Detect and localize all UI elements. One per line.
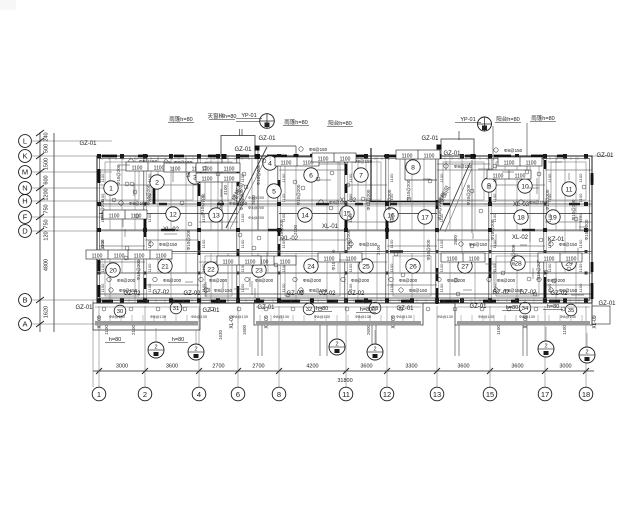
svg-text:8: 8 xyxy=(411,164,415,171)
scan corner artifact xyxy=(0,0,16,10)
svg-text:1100: 1100 xyxy=(100,263,105,272)
canopy YP-01 right xyxy=(437,117,528,172)
svg-text:Φ8@200: Φ8@200 xyxy=(303,278,322,283)
svg-text:1630: 1630 xyxy=(218,329,223,340)
svg-text:B: B xyxy=(22,296,27,305)
edge hatch ticks xyxy=(102,157,588,302)
svg-text:GZ-01: GZ-01 xyxy=(421,136,439,142)
svg-text:Φ4@200: Φ4@200 xyxy=(248,215,265,220)
columns xyxy=(97,154,588,303)
svg-text:1100: 1100 xyxy=(493,174,504,180)
grid axis 6 xyxy=(231,387,245,401)
svg-text:H: H xyxy=(22,197,27,206)
svg-text:1100: 1100 xyxy=(547,193,552,202)
svg-text:1100: 1100 xyxy=(147,213,152,222)
svg-text:Φ8@130: Φ8@130 xyxy=(519,314,536,319)
member labels xyxy=(75,136,616,314)
svg-text:2: 2 xyxy=(143,390,147,399)
svg-text:1100: 1100 xyxy=(504,161,515,167)
rotated member labels xyxy=(97,315,598,329)
svg-text:2600: 2600 xyxy=(251,194,256,205)
svg-text:Φ8@130: Φ8@130 xyxy=(109,314,126,319)
svg-text:1100: 1100 xyxy=(348,193,353,202)
svg-text:Φ8@150: Φ8@150 xyxy=(214,288,233,293)
grid axis 17 xyxy=(538,387,552,401)
svg-text:Φ10@200: Φ10@200 xyxy=(426,239,431,260)
grid axis M xyxy=(19,166,112,179)
svg-text:Φ10@200: Φ10@200 xyxy=(136,259,141,280)
rebar annotations xyxy=(107,147,578,293)
slab mark 33 xyxy=(369,302,381,314)
porch descenders xyxy=(258,325,527,356)
svg-text:GZ-02: GZ-02 xyxy=(183,291,201,297)
svg-text:1100: 1100 xyxy=(201,213,206,222)
svg-text:Φ8@130: Φ8@130 xyxy=(150,314,167,319)
grid axis 1 xyxy=(92,387,106,401)
svg-text:500: 500 xyxy=(44,144,50,153)
grid axis L xyxy=(19,135,112,148)
svg-text:13: 13 xyxy=(212,212,220,219)
svg-text:1100: 1100 xyxy=(544,257,555,263)
svg-text:Φ8@200: Φ8@200 xyxy=(351,278,370,283)
svg-text:3100: 3100 xyxy=(223,184,228,195)
svg-text:XL-09: XL-09 xyxy=(592,315,598,329)
svg-text:Φ8@130: Φ8@130 xyxy=(273,314,290,319)
slab mark 6 xyxy=(304,168,318,182)
svg-text:XL-02: XL-02 xyxy=(163,227,180,233)
svg-text:3600: 3600 xyxy=(457,364,469,370)
stairwell right xyxy=(435,160,472,233)
svg-text:1100: 1100 xyxy=(281,161,292,167)
canopy YP-01 left xyxy=(221,114,299,159)
svg-text:M: M xyxy=(22,168,28,177)
grid axis A xyxy=(19,318,112,331)
svg-text:25: 25 xyxy=(362,263,370,270)
svg-text:1100: 1100 xyxy=(92,254,103,260)
svg-text:XL-01: XL-01 xyxy=(322,224,339,230)
svg-text:1100: 1100 xyxy=(547,239,552,248)
svg-text:K: K xyxy=(22,152,27,161)
slab mark 29 xyxy=(562,256,576,270)
svg-text:D: D xyxy=(22,227,28,236)
svg-text:Φ8@130: Φ8@130 xyxy=(560,314,577,319)
svg-text:120: 120 xyxy=(44,231,50,240)
svg-text:1100: 1100 xyxy=(492,193,497,202)
svg-text:1100: 1100 xyxy=(526,161,537,167)
svg-text:Φ8@150: Φ8@150 xyxy=(409,288,428,293)
partition wall segments xyxy=(99,148,592,285)
slab mark 18 xyxy=(514,210,528,224)
svg-text:1100: 1100 xyxy=(348,283,353,292)
svg-text:Φ8@150: Φ8@150 xyxy=(504,148,523,153)
svg-text:2600: 2600 xyxy=(453,234,458,245)
svg-text:1100: 1100 xyxy=(100,193,105,202)
bottom dimension chain xyxy=(93,300,594,387)
svg-text:31800: 31800 xyxy=(337,378,352,384)
svg-text:4: 4 xyxy=(197,390,201,399)
svg-text:1100: 1100 xyxy=(280,260,291,266)
svg-text:GZ-01: GZ-01 xyxy=(75,305,93,311)
svg-text:1100: 1100 xyxy=(224,167,235,173)
svg-text:h=80: h=80 xyxy=(316,306,328,312)
svg-text:1100: 1100 xyxy=(578,193,583,202)
svg-text:1100: 1100 xyxy=(402,154,413,160)
stairwell left xyxy=(222,146,268,230)
svg-text:Φ8@150: Φ8@150 xyxy=(504,288,523,293)
svg-text:26: 26 xyxy=(409,263,417,270)
grid axis 18 xyxy=(579,387,593,401)
svg-text:750: 750 xyxy=(44,219,50,228)
svg-text:1100: 1100 xyxy=(439,193,444,202)
svg-text:Φ8@150: Φ8@150 xyxy=(329,200,348,205)
svg-text:Φ8@150: Φ8@150 xyxy=(359,242,378,247)
svg-text:4: 4 xyxy=(268,160,272,167)
svg-text:11: 11 xyxy=(565,186,572,193)
grid axis B xyxy=(19,294,592,307)
svg-text:XL-02: XL-02 xyxy=(512,235,529,241)
svg-text:L: L xyxy=(23,137,27,146)
svg-text:Φ10@200: Φ10@200 xyxy=(116,164,121,185)
svg-text:17: 17 xyxy=(421,214,429,221)
svg-text:YP-01: YP-01 xyxy=(460,117,475,123)
svg-text:Φ8@150: Φ8@150 xyxy=(159,242,178,247)
svg-text:1: 1 xyxy=(97,390,101,399)
svg-text:3100: 3100 xyxy=(376,244,381,255)
svg-text:1100: 1100 xyxy=(109,214,120,220)
grid axis N xyxy=(19,182,112,195)
svg-text:1100: 1100 xyxy=(147,263,152,272)
svg-text:3600: 3600 xyxy=(360,364,372,370)
svg-text:1100: 1100 xyxy=(170,167,181,173)
svg-text:Φ8@150: Φ8@150 xyxy=(454,164,473,169)
svg-text:1100: 1100 xyxy=(240,173,245,182)
svg-text:1100: 1100 xyxy=(439,263,444,272)
wall junctions xyxy=(98,203,588,275)
svg-text:2: 2 xyxy=(194,347,197,353)
slab mark 35 xyxy=(565,304,577,316)
svg-text:13: 13 xyxy=(433,390,441,399)
slab mark 12 xyxy=(166,207,180,221)
svg-text:2: 2 xyxy=(544,344,547,350)
svg-text:1500: 1500 xyxy=(44,158,50,170)
svg-text:3000: 3000 xyxy=(116,364,128,370)
svg-text:1100: 1100 xyxy=(281,173,286,182)
svg-text:10: 10 xyxy=(521,183,529,190)
svg-text:XL-03: XL-03 xyxy=(513,202,530,208)
svg-text:1100: 1100 xyxy=(348,239,353,248)
svg-text:1100: 1100 xyxy=(578,263,583,272)
svg-text:Φ8@130: Φ8@130 xyxy=(191,314,208,319)
svg-text:2700: 2700 xyxy=(252,364,264,370)
slab mark 3 xyxy=(188,170,202,184)
svg-text:1100: 1100 xyxy=(245,260,256,266)
svg-text:1100: 1100 xyxy=(515,174,526,180)
svg-text:Φ8@150: Φ8@150 xyxy=(559,242,578,247)
svg-text:12: 12 xyxy=(383,390,391,399)
svg-text:1100: 1100 xyxy=(147,239,152,248)
svg-text:4800: 4800 xyxy=(44,259,50,271)
svg-text:h=80: h=80 xyxy=(109,337,121,343)
svg-text:Φ8@150: Φ8@150 xyxy=(119,288,138,293)
svg-text:GZ-01: GZ-01 xyxy=(258,136,276,142)
svg-text:1100: 1100 xyxy=(389,193,394,202)
svg-text:Φ8@200: Φ8@200 xyxy=(209,278,228,283)
svg-text:1100: 1100 xyxy=(348,213,353,222)
svg-text:Φ10@200: Φ10@200 xyxy=(186,229,191,250)
svg-text:21: 21 xyxy=(161,263,169,270)
svg-text:Φ8@130: Φ8@130 xyxy=(437,314,454,319)
svg-text:7: 7 xyxy=(359,172,363,179)
svg-text:23: 23 xyxy=(255,267,263,274)
svg-text:Φ10@200: Φ10@200 xyxy=(584,219,589,240)
svg-text:1100: 1100 xyxy=(281,213,286,222)
slab mark 34 xyxy=(519,302,531,314)
svg-text:Φ8@150: Φ8@150 xyxy=(354,159,373,164)
slab mark 23 xyxy=(252,263,266,277)
slab mark 10 xyxy=(518,179,532,193)
svg-text:1100: 1100 xyxy=(439,283,444,292)
svg-text:1100: 1100 xyxy=(578,173,583,182)
svg-text:1100: 1100 xyxy=(389,173,394,182)
svg-text:2: 2 xyxy=(154,345,157,351)
grid axis F xyxy=(19,211,112,224)
svg-text:Φ10@200: Φ10@200 xyxy=(296,184,301,205)
svg-text:Φ8@130: Φ8@130 xyxy=(355,314,372,319)
svg-text:1100: 1100 xyxy=(156,254,167,260)
svg-text:1100: 1100 xyxy=(547,173,552,182)
svg-text:Φ8@200: Φ8@200 xyxy=(117,278,136,283)
svg-text:h=80: h=80 xyxy=(360,307,372,313)
svg-text:雨篷h=80: 雨篷h=80 xyxy=(169,115,192,123)
svg-text:1100: 1100 xyxy=(240,283,245,292)
left dimension values xyxy=(44,132,50,318)
svg-text:6: 6 xyxy=(236,390,240,399)
svg-text:Φ8@130: Φ8@130 xyxy=(478,314,495,319)
svg-text:1100: 1100 xyxy=(154,166,165,172)
svg-text:2700: 2700 xyxy=(212,364,224,370)
building outer wall xyxy=(97,156,592,303)
svg-text:11: 11 xyxy=(342,390,350,399)
svg-text:2: 2 xyxy=(585,350,588,356)
wall fill bars xyxy=(98,155,594,304)
svg-text:Φ8@150: Φ8@150 xyxy=(309,288,328,293)
svg-text:Φ10@200: Φ10@200 xyxy=(366,189,371,210)
svg-text:1100: 1100 xyxy=(224,177,235,183)
canopy labels xyxy=(168,112,556,127)
svg-text:1100: 1100 xyxy=(147,173,152,182)
secondary vertical beams xyxy=(110,156,576,303)
svg-text:6: 6 xyxy=(309,172,313,179)
slab mark 24 xyxy=(304,259,318,273)
svg-text:1100: 1100 xyxy=(348,263,353,272)
svg-text:27: 27 xyxy=(461,263,469,270)
svg-text:1100: 1100 xyxy=(424,154,435,160)
svg-text:GZ-01: GZ-01 xyxy=(257,305,275,311)
grid axis H xyxy=(19,195,592,208)
section markers xyxy=(148,325,595,363)
slab mark 32 xyxy=(303,303,315,315)
grid axis 8 xyxy=(272,387,286,401)
svg-text:GZ-01: GZ-01 xyxy=(234,147,252,153)
svg-text:15: 15 xyxy=(486,390,494,399)
slab mark 9 xyxy=(482,178,496,192)
svg-text:1100: 1100 xyxy=(348,173,353,182)
slab mark 21 xyxy=(158,259,172,273)
svg-text:Φ10@200: Φ10@200 xyxy=(536,259,541,280)
svg-text:1100: 1100 xyxy=(132,166,143,172)
detail end markers xyxy=(112,159,587,298)
svg-text:1100: 1100 xyxy=(202,177,213,183)
svg-text:18: 18 xyxy=(517,214,525,221)
slab mark 4 xyxy=(263,156,277,170)
svg-text:1100: 1100 xyxy=(281,239,286,248)
svg-text:Φ10@200: Φ10@200 xyxy=(511,244,516,265)
svg-text:Φ8@150: Φ8@150 xyxy=(309,147,328,152)
svg-text:17: 17 xyxy=(541,390,549,399)
svg-text:Φ8@130: Φ8@130 xyxy=(232,314,249,319)
wall dimension chains xyxy=(100,173,583,292)
interior horizontal walls xyxy=(97,204,592,298)
slab mark 5 xyxy=(267,184,281,198)
svg-text:1100: 1100 xyxy=(469,257,480,263)
room outlines xyxy=(105,162,586,296)
slab mark 15 xyxy=(340,206,354,220)
svg-text:1100: 1100 xyxy=(566,257,577,263)
svg-text:1100: 1100 xyxy=(147,283,152,292)
svg-text:1100: 1100 xyxy=(492,213,497,222)
grid axis D xyxy=(19,225,592,238)
svg-text:1100: 1100 xyxy=(547,283,552,292)
svg-text:1100: 1100 xyxy=(134,254,145,260)
svg-text:1100: 1100 xyxy=(547,213,552,222)
slab mark 28 xyxy=(511,256,525,270)
svg-text:3600: 3600 xyxy=(511,364,523,370)
slab mark 11 xyxy=(562,182,576,196)
svg-text:Φ8@200: Φ8@200 xyxy=(163,278,182,283)
slab mark 27 xyxy=(458,259,472,273)
svg-text:Φ8@200: Φ8@200 xyxy=(447,278,466,283)
svg-text:1100: 1100 xyxy=(318,157,329,163)
svg-text:1100: 1100 xyxy=(201,283,206,292)
grid axis K xyxy=(19,150,612,163)
svg-text:Φ8@200: Φ8@200 xyxy=(497,278,516,283)
svg-text:1100: 1100 xyxy=(578,239,583,248)
svg-text:2: 2 xyxy=(373,347,376,353)
svg-text:1100: 1100 xyxy=(389,213,394,222)
svg-text:1100: 1100 xyxy=(281,283,286,292)
svg-text:1100: 1100 xyxy=(240,193,245,202)
svg-text:18: 18 xyxy=(582,390,590,399)
slab mark 20 xyxy=(106,263,120,277)
svg-text:5: 5 xyxy=(272,188,276,195)
svg-text:1100: 1100 xyxy=(447,257,458,263)
balcony level labels xyxy=(105,304,563,343)
svg-text:750: 750 xyxy=(44,204,50,213)
svg-text:2: 2 xyxy=(155,179,159,186)
svg-text:1100: 1100 xyxy=(324,257,335,263)
svg-text:h=80: h=80 xyxy=(506,305,518,311)
slab mark 26 xyxy=(406,259,420,273)
svg-text:Φ8@130: Φ8@130 xyxy=(396,314,413,319)
svg-text:3100: 3100 xyxy=(293,224,298,235)
svg-text:Φ8@200: Φ8@200 xyxy=(255,278,274,283)
grid axis 13 xyxy=(430,387,444,401)
slab mark 13 xyxy=(209,208,223,222)
grid axis 11 xyxy=(339,387,353,401)
svg-text:1100: 1100 xyxy=(100,239,105,248)
slab mark 30 xyxy=(114,305,126,317)
slab mark 2 xyxy=(150,175,164,189)
svg-text:阳台h=80: 阳台h=80 xyxy=(496,115,519,123)
svg-text:12: 12 xyxy=(169,211,177,218)
svg-text:1100: 1100 xyxy=(114,254,125,260)
slab mark 7 xyxy=(354,168,368,182)
svg-text:h=80: h=80 xyxy=(547,304,559,310)
balconies xyxy=(93,303,610,330)
slab mark 14 xyxy=(298,208,312,222)
svg-text:天窗梯h=80: 天窗梯h=80 xyxy=(208,112,237,120)
svg-text:1: 1 xyxy=(109,185,113,192)
svg-text:GZ-02: GZ-02 xyxy=(519,290,537,296)
svg-text:1100: 1100 xyxy=(578,213,583,222)
left dimension chain xyxy=(36,130,54,332)
svg-text:1100: 1100 xyxy=(100,283,105,292)
svg-text:Φ8@150: Φ8@150 xyxy=(129,201,148,206)
svg-text:1100: 1100 xyxy=(496,325,501,335)
svg-text:A: A xyxy=(22,320,27,329)
svg-text:1100: 1100 xyxy=(240,239,245,248)
svg-text:1100: 1100 xyxy=(439,213,444,222)
svg-text:600: 600 xyxy=(44,175,50,184)
svg-text:4200: 4200 xyxy=(306,364,318,370)
svg-text:22: 22 xyxy=(207,266,215,273)
svg-text:1100: 1100 xyxy=(439,239,444,248)
slab mark 19 xyxy=(546,210,560,224)
svg-text:1100: 1100 xyxy=(201,239,206,248)
svg-text:GZ-01: GZ-01 xyxy=(443,151,461,157)
svg-text:N: N xyxy=(22,184,27,193)
svg-text:1100: 1100 xyxy=(100,173,105,182)
svg-text:1100: 1100 xyxy=(223,260,234,266)
svg-text:8: 8 xyxy=(277,390,281,399)
svg-text:1200: 1200 xyxy=(44,188,50,200)
svg-text:1100: 1100 xyxy=(346,257,357,263)
svg-text:雨篷h=80: 雨篷h=80 xyxy=(531,114,554,122)
interior vertical walls xyxy=(144,156,546,303)
svg-text:20: 20 xyxy=(109,267,117,274)
svg-text:1100: 1100 xyxy=(201,263,206,272)
svg-text:1100: 1100 xyxy=(578,283,583,292)
svg-text:1100: 1100 xyxy=(389,239,394,248)
svg-text:1620: 1620 xyxy=(44,306,50,318)
svg-text:14: 14 xyxy=(301,212,309,219)
svg-text:1100: 1100 xyxy=(389,263,394,272)
slab mark 22 xyxy=(204,262,218,276)
svg-text:3000: 3000 xyxy=(559,364,571,370)
svg-text:GZ-01: GZ-01 xyxy=(79,141,97,147)
svg-text:阳台h=80: 阳台h=80 xyxy=(328,119,351,127)
slab mark 1 xyxy=(104,181,118,195)
slab mark 25 xyxy=(359,259,373,273)
svg-text:h=80: h=80 xyxy=(172,337,184,343)
slab mark 8 xyxy=(406,160,420,174)
svg-text:240: 240 xyxy=(44,132,50,141)
svg-text:雨篷h=80: 雨篷h=80 xyxy=(284,118,307,126)
bottom dimension values xyxy=(116,364,572,385)
bottom strip annotations xyxy=(102,307,577,319)
svg-text:Φ10@200: Φ10@200 xyxy=(466,184,471,205)
svg-text:Φ8@200: Φ8@200 xyxy=(547,278,566,283)
